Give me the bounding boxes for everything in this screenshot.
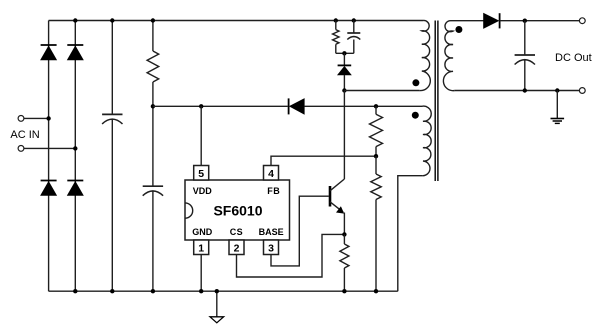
svg-text:2: 2 bbox=[234, 242, 240, 254]
node FB lower ground bbox=[374, 289, 378, 293]
DC output terminal T3 bbox=[579, 18, 585, 24]
wire output cap leads bbox=[524, 21, 526, 91]
label GND bbox=[192, 227, 213, 237]
node top rail col2 bbox=[73, 18, 77, 22]
node earth stem bbox=[555, 88, 559, 92]
diode D2 bbox=[67, 45, 83, 60]
node bottom rail col2 bbox=[73, 289, 77, 293]
diode D6 bbox=[289, 98, 305, 114]
svg-text:FB: FB bbox=[267, 186, 280, 196]
diode D5 clamp bbox=[338, 65, 352, 75]
wire snubber R bottom lead bbox=[335, 44, 337, 53]
pin 4 FB bbox=[264, 166, 279, 181]
wire FB lower bottom lead bbox=[375, 200, 377, 292]
node snubber C top bbox=[352, 18, 356, 22]
node output cap top bbox=[523, 19, 527, 23]
svg-text:DC Out: DC Out bbox=[555, 52, 592, 64]
transformer core bbox=[435, 21, 438, 182]
node sense ground bbox=[342, 289, 346, 293]
pin 1 GND bbox=[194, 240, 209, 255]
wire R1 top lead bbox=[152, 21, 154, 52]
AC input terminal T1 bbox=[18, 116, 24, 122]
wire sense R bottom lead bbox=[343, 268, 345, 291]
wire pin1 to ground rail bbox=[200, 255, 202, 292]
svg-text:BASE: BASE bbox=[259, 227, 284, 237]
node bottom rail col3 bbox=[110, 289, 114, 293]
node VDD col4 bbox=[151, 104, 155, 108]
wire snubber R top lead bbox=[335, 21, 337, 30]
svg-text:GND: GND bbox=[192, 227, 213, 237]
label BASE bbox=[259, 227, 284, 237]
wire switch to primary bbox=[344, 90, 419, 92]
node top rail col3 bbox=[110, 18, 114, 22]
node FB divider top bbox=[374, 104, 378, 108]
resistor R4 FB lower bbox=[371, 174, 381, 200]
ground earth secondary bbox=[551, 119, 565, 124]
wire secondary bottom bbox=[455, 90, 580, 92]
op-amp U1 SF6010 body bbox=[185, 180, 290, 240]
capacitor C3 snubber bbox=[347, 33, 360, 40]
label CS bbox=[230, 227, 244, 237]
node bottom rail col4 bbox=[151, 289, 155, 293]
wire secondary top right bbox=[500, 20, 580, 22]
resistor R5 sense bbox=[340, 244, 349, 268]
node snubber bus bbox=[342, 51, 346, 55]
wire bridge right column bbox=[74, 21, 76, 292]
node switch bbox=[342, 88, 346, 92]
diode D7 output bbox=[484, 13, 500, 28]
capacitor C2 bbox=[143, 186, 163, 196]
node output cap bottom bbox=[523, 88, 527, 92]
wire VDD bus right bbox=[304, 105, 422, 107]
node AC2 junction bbox=[73, 146, 77, 150]
wire pin2 CS route bbox=[237, 234, 345, 277]
label FB bbox=[267, 186, 280, 196]
node ground stem bbox=[215, 289, 219, 293]
pin 2 CS bbox=[229, 240, 244, 255]
ground primary bbox=[210, 317, 224, 323]
wire collector bbox=[343, 91, 345, 180]
pin 3 BASE bbox=[264, 240, 279, 255]
node FB bbox=[374, 154, 378, 158]
node secondary polarity dot bbox=[455, 26, 462, 33]
wire VDD bus left bbox=[153, 105, 288, 107]
transistor Q1 bbox=[330, 179, 344, 214]
svg-text:AC IN: AC IN bbox=[10, 129, 39, 141]
node snubber R top bbox=[334, 18, 338, 22]
label SF6010 bbox=[213, 202, 262, 218]
wire bulk cap column bbox=[111, 21, 113, 292]
wire pin3 BASE route bbox=[271, 196, 329, 266]
diode D4 bbox=[67, 181, 83, 196]
wire AC line 2 bbox=[24, 147, 75, 149]
svg-text:1: 1 bbox=[198, 242, 204, 254]
svg-text:5: 5 bbox=[198, 168, 204, 180]
wire snubber bottom bus bbox=[336, 52, 354, 54]
label VDD bbox=[193, 186, 213, 196]
node pin1 ground bbox=[199, 289, 203, 293]
svg-text:3: 3 bbox=[268, 242, 274, 254]
node emitter bbox=[342, 232, 346, 236]
DC output terminal T4 bbox=[579, 88, 585, 94]
wire C2 column bbox=[152, 106, 154, 291]
wire clamp diode top lead bbox=[343, 53, 345, 65]
wire earth stem bbox=[556, 91, 558, 119]
wire secondary top left bbox=[451, 20, 484, 22]
wire R1 bottom lead bbox=[152, 82, 154, 106]
label AC IN bbox=[10, 129, 39, 141]
node aux polarity dot bbox=[412, 112, 419, 119]
pin 5 VDD bbox=[194, 166, 209, 181]
wire FB divider mid lead bbox=[375, 147, 377, 157]
svg-text:VDD: VDD bbox=[193, 186, 213, 196]
wire switch node column bbox=[343, 75, 345, 91]
resistor R2 snubber bbox=[333, 30, 339, 45]
transformer primary winding bbox=[419, 20, 430, 90]
transformer secondary winding bbox=[443, 21, 454, 91]
capacitor C4 output bbox=[515, 55, 535, 65]
wire FB divider top lead bbox=[375, 106, 377, 114]
wire snubber C bottom lead bbox=[353, 40, 355, 54]
label DC Out bbox=[555, 52, 592, 64]
wire pin4 to FB node bbox=[271, 156, 376, 165]
wire bottom rail bbox=[49, 290, 398, 292]
wire snubber C top lead bbox=[353, 21, 355, 34]
node primary polarity dot bbox=[412, 79, 419, 86]
wire FB lower top lead bbox=[375, 156, 377, 174]
wire AC line 1 bbox=[24, 117, 49, 119]
node AC1 junction bbox=[46, 116, 50, 120]
svg-text:CS: CS bbox=[230, 227, 244, 237]
diode D3 bbox=[41, 181, 57, 196]
capacitor C1 bbox=[102, 114, 122, 124]
wire bridge left column bbox=[48, 21, 50, 292]
wire ground stem bbox=[216, 291, 218, 317]
wire aux return bbox=[398, 176, 423, 292]
svg-text:4: 4 bbox=[268, 168, 274, 180]
wire sense R top lead bbox=[343, 234, 345, 244]
resistor R1 bbox=[147, 51, 159, 82]
diode D1 bbox=[41, 45, 57, 60]
resistor R3 FB upper bbox=[370, 114, 383, 146]
wire emitter bbox=[343, 213, 345, 235]
AC input terminal T2 bbox=[18, 146, 24, 152]
wire top rail bbox=[49, 20, 424, 22]
transformer aux winding bbox=[422, 106, 431, 176]
node top rail col4 bbox=[151, 18, 155, 22]
wire pin5 to VDD bbox=[200, 106, 202, 165]
node pin5 tap bbox=[199, 104, 203, 108]
svg-text:SF6010: SF6010 bbox=[213, 202, 262, 218]
